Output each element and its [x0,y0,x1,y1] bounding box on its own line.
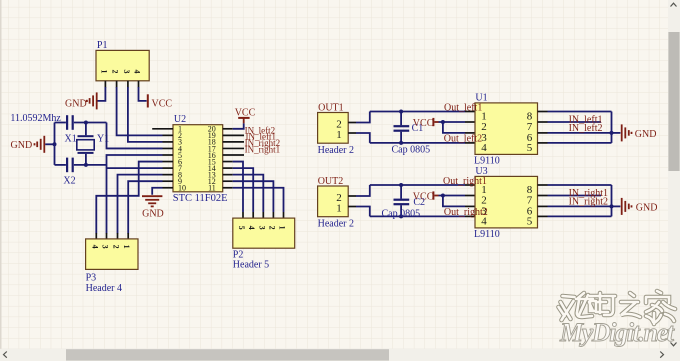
svg-text:2: 2 [111,70,120,74]
connector P3 body [86,239,138,270]
connector P2 designator [233,250,244,261]
svg-text:5: 5 [237,226,246,230]
svg-text:X1: X1 [65,133,77,144]
net label IN_right2 at U2 [245,138,281,148]
svg-text:GND: GND [11,140,33,151]
connector OUT1 designator [318,102,344,113]
mcu U2 designator [174,114,186,125]
svg-text:VCC: VCC [413,118,434,129]
svg-text:L9110: L9110 [474,156,500,167]
svg-text:3: 3 [122,70,131,74]
U3 left pin numbers [481,184,487,227]
connector OUT2 designator [318,176,344,187]
U1 comment L9110 [474,156,500,167]
net label IN_right1 [569,188,608,199]
U1 left pin numbers [481,111,487,154]
svg-text:Header 5: Header 5 [233,259,269,270]
VCC power symbol above U2 [238,118,249,123]
net label IN_right1 at U2 [245,145,281,155]
wire U2 pin11 to P2 pin1 [233,188,284,212]
wire P1 pin4 to VCC [139,87,147,101]
net label IN_right2 [569,196,608,207]
OUT1 pin number 2 [336,119,342,131]
wire Out_right1 rail to U3 pin1 [370,184,465,186]
VCC power symbol at U1 [433,118,438,126]
capacitor X1 [55,115,107,130]
wire U2 pin15 to P2 pin5 [233,162,243,212]
wire VCC branch to U3 pin3 [443,196,465,207]
P3 pin number 2 [112,245,121,249]
svg-text:GND: GND [65,98,87,109]
wire U1 pin6 to ground bus [548,132,612,134]
node junction C2 top [399,183,403,187]
node junction VCC branch U3 [441,194,445,198]
U3 right pin stubs [538,185,548,216]
svg-text:Out_right1: Out_right1 [443,176,487,187]
P1 pin stubs [105,81,138,88]
net label Out_left1 [444,102,482,113]
C1 comment Cap 0805 [392,144,431,155]
svg-text:MyDigit.net: MyDigit.net [559,318,675,347]
U2 left pin numbers 1-10 [178,125,186,193]
wire P1 pin3 to U2 pin3 [128,87,163,142]
GND net label at U3 [636,203,658,214]
capacitor C2 designator [413,197,425,208]
horizontal scrollbar right arrow [660,352,663,358]
net label Out_right2 [444,207,488,218]
svg-text:OUT1: OUT1 [318,102,344,113]
P2 pin number 5 [237,226,246,230]
net label Out_left2 [444,134,482,145]
wire VCC to U3 pin2 [439,195,466,197]
svg-text:2: 2 [267,226,276,230]
svg-text:Out_left1: Out_left1 [444,102,482,113]
frequency value label 11.0592Mhz [10,113,61,124]
wire crystal top rail to U2 pin4 [107,123,163,149]
OUT2 comment Header 2 [318,218,354,229]
node junction at X2 / Y1 [84,163,88,167]
wire Out_right2 rail to U3 pin4 [370,215,465,217]
U2 left pin stubs 2-10 [163,135,174,187]
node junction at X1 / Y1 [84,121,88,125]
wire OUT1 pin1 to bottom rail [356,133,370,143]
P1 pin number 3 [122,70,131,74]
svg-text:GND: GND [636,203,658,214]
P3 pin stubs [96,233,128,239]
wire P1 pin1 to GND [98,87,106,101]
svg-text:11: 11 [208,184,216,193]
node junction U1 ground bus [610,131,614,135]
P1 pin number 1 [99,70,108,74]
svg-text:1: 1 [278,226,287,230]
svg-text:Header 2: Header 2 [318,145,354,156]
VCC power symbol at P1 pin4 [147,94,149,107]
P2 pin stubs [243,212,284,218]
node junction U3 ground bus [610,204,614,208]
vertical scrollbar thumb [668,32,679,171]
svg-text:STC 11F02E: STC 11F02E [173,193,228,204]
VCC net label at P1 [152,98,173,109]
svg-text:OUT2: OUT2 [318,176,344,187]
ground symbol at P1 pin1 [87,92,97,109]
svg-text:Header 4: Header 4 [86,283,122,294]
vertical scrollbar track [668,0,680,349]
svg-text:VCC: VCC [413,191,434,202]
node junction C2 bottom [399,214,403,218]
svg-text:4: 4 [247,226,256,230]
wire Out_left2 rail to U1 pin4 [370,142,465,144]
crystal Y1 [77,123,94,165]
svg-text:U2: U2 [174,114,186,125]
watermark MyDigit.net text [559,318,675,347]
connector P1 body [96,50,149,80]
svg-text:10: 10 [178,184,186,193]
wire U2 pin14 to P2 pin4 [233,168,254,212]
C2 comment Cap 0805 [382,208,421,219]
svg-text:X2: X2 [63,175,75,186]
connector OUT2 body [318,186,349,217]
GND net label at crystal [11,140,33,151]
svg-text:1: 1 [336,129,342,141]
svg-text:VCC: VCC [152,98,173,109]
OUT1 comment Header 2 [318,145,354,156]
vertical scrollbar down arrow [671,343,677,346]
wire U1 ground bus vertical [611,112,613,143]
P2 pin number 3 [257,226,266,230]
wire U2 pin12 to P2 pin2 [233,181,274,212]
node junction VCC branch U1 [441,120,445,124]
svg-text:4: 4 [481,142,487,154]
crystal Y1 designator [97,133,109,144]
U1 right pin numbers [527,111,533,154]
wire U2 pin9 to P3 pin1 [128,181,162,233]
wire Out_left1 rail to U1 pin1 [370,111,465,113]
svg-text:2: 2 [112,245,121,249]
svg-text:Header 2: Header 2 [318,218,354,229]
horizontal scrollbar thumb [66,349,389,360]
driver U1 designator [475,93,487,104]
P2 pin number 1 [278,226,287,230]
svg-text:Cap 0805: Cap 0805 [382,208,421,219]
capacitor X1 designator [65,133,77,144]
wire U2 pin13 to P2 pin3 [233,175,264,212]
VCC power symbol at U3 [433,191,438,199]
wire VCC to U1 pin2 [439,121,466,123]
wire U3 pin6 to ground bus [548,205,612,207]
wire crystal GND lead [45,143,54,145]
wire U2 pin5 / crystal bottom rail / P3 pin3 vertical [107,155,163,234]
U2 right pin stubs [223,129,244,188]
wire crystal left vertical [54,123,56,165]
wire U3 GND lead [612,205,621,207]
svg-text:L9110: L9110 [474,229,500,240]
driver U1 body [475,103,538,154]
svg-text:4: 4 [133,70,142,74]
VCC net label above U2 [235,107,256,118]
watermark chinese characters (outlined hollow strokes) [559,291,676,324]
connector P3 comment Header 4 [86,283,122,294]
connector OUT1 body [318,113,349,144]
wire U1 pin5 to ground bus [548,142,612,144]
U2 pin 1 stub [152,128,173,130]
node junction C1 top [399,110,403,114]
OUT1 pin stubs [348,123,356,134]
svg-text:1: 1 [99,70,108,74]
wire U1 pin8 to ground bus [548,111,612,113]
U3 comment L9110 [474,229,500,240]
svg-text:GND: GND [142,208,164,219]
U1 left pin stubs [465,112,475,143]
wire U3 pin8 to ground bus [548,184,612,186]
wire U2 pin10 to GND [152,188,162,195]
capacitor C1 [394,112,410,143]
node junction at crystal GND [53,142,57,146]
net label IN_left2 [569,123,603,134]
svg-text:P1: P1 [97,40,108,51]
wire OUT2 pin1 to bottom rail [356,207,370,217]
P3 pin number 3 [101,245,110,249]
wire VCC branch to U1 pin3 [443,122,465,133]
wire U3 pin7 stub IN_right2 [548,195,602,197]
OUT1 pin number 1 [336,129,342,141]
vertical scrollbar up arrow [671,3,677,6]
net label Out_right1 [443,176,487,187]
net label IN_left1 [569,115,603,126]
wire U1 pin7 stub IN_left2 [548,121,602,123]
ground symbol at U3 [622,198,632,215]
wire P1 pin2 to U2 pin2 [117,87,163,135]
connector P2 body [233,218,295,248]
OUT2 pin number 1 [336,203,342,215]
P1 pin number 4 [133,70,142,74]
mcu U2 comment STC 11F02E [173,193,228,204]
U3 left pin stubs [465,185,475,216]
GND net label at P1 [65,98,87,109]
GND net label below U2 [142,208,164,219]
mcu U2 body [173,125,223,192]
wire OUT2 pin2 to top rail [356,185,370,196]
connector P1 designator [97,40,108,51]
svg-text:IN_right1: IN_right1 [245,145,281,155]
U1 right pin stubs [538,112,548,143]
wire U1 GND lead [612,132,621,134]
wire U2 pin20 to VCC [233,123,244,129]
VCC net label at C1 [413,118,434,129]
capacitor X2 designator [63,175,75,186]
svg-text:3: 3 [257,226,266,230]
wire U2 pin7 branch [107,167,163,169]
P3 pin number 1 [122,245,131,249]
svg-text:Cap 0805: Cap 0805 [392,144,431,155]
OUT2 pin stubs [348,196,356,207]
P3 pin number 4 [90,245,99,249]
wire U2 pin6 to P3 pin4 [96,162,162,234]
driver U3 designator [475,166,487,177]
driver U3 body [475,176,538,228]
net label IN_left2 at U2 [245,126,276,136]
svg-text:1: 1 [336,203,342,215]
ground symbol at crystal [35,136,45,153]
svg-text:Out_right2: Out_right2 [444,207,488,218]
svg-text:5: 5 [527,216,533,228]
P2 pin number 4 [247,226,256,230]
wire OUT1 pin2 to top rail [356,112,370,123]
svg-text:Out_left2: Out_left2 [444,134,482,145]
ground symbol below U2 [142,196,162,206]
ground symbol at U1 [622,124,632,141]
U2 right pin numbers 20-11 [208,125,216,193]
VCC net label at C2 [413,191,434,202]
P1 pin number 2 [111,70,120,74]
svg-text:IN_left2: IN_left2 [569,123,603,134]
horizontal scrollbar track [0,349,680,361]
capacitor X2 [55,158,107,173]
U3 right pin numbers [527,184,533,227]
svg-text:GND: GND [635,129,657,140]
capacitor C2 [394,185,410,216]
wire U3 ground bus vertical [611,185,613,216]
svg-text:4: 4 [90,245,99,249]
horizontal scrollbar left arrow [4,352,7,358]
GND net label at U1 [635,129,657,140]
svg-text:IN_right2: IN_right2 [569,196,608,207]
wire U2 pin8 to P3 pin2 [118,175,163,234]
node junction C1 bottom [399,141,403,145]
wire U3 pin5 to ground bus [548,215,612,217]
capacitor C1 designator [412,123,424,134]
OUT2 pin number 2 [336,192,342,204]
svg-text:VCC: VCC [235,107,256,118]
net label IN_left1 at U2 [246,132,277,142]
svg-text:1: 1 [122,245,131,249]
svg-text:3: 3 [101,245,110,249]
connector P3 designator [86,273,97,284]
P2 pin number 2 [267,226,276,230]
svg-text:5: 5 [527,142,533,154]
connector P2 comment Header 5 [233,259,269,270]
